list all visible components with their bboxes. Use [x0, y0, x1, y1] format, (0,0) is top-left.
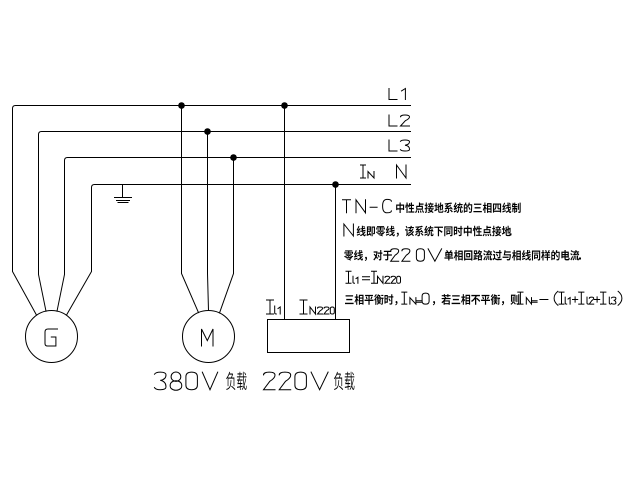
wire L3 phase line	[57, 158, 411, 312]
junction node on L3 at motor tap	[230, 154, 237, 161]
junction node on L1 at motor tap	[178, 102, 185, 109]
generator G circle	[26, 311, 78, 363]
note line 3 chinese tail: 单相回路流过与相线同样的电流.	[444, 250, 453, 260]
label 380V	[155, 372, 218, 390]
label IN220	[300, 300, 334, 314]
wire tap from L2 to motor M	[208, 132, 209, 311]
wire tap from L1 to motor M	[182, 106, 199, 313]
label L3	[389, 140, 410, 151]
note line 2 N glyph	[344, 224, 354, 236]
label IN (neutral current)	[361, 165, 375, 178]
wire tap from L1 down to 220V load	[284, 106, 286, 320]
note line 3 value 220V	[391, 249, 442, 261]
junction node on L1 at load tap	[281, 102, 288, 109]
wire tap from N down to 220V load	[335, 185, 337, 320]
label L1	[389, 89, 405, 100]
label L2	[389, 115, 410, 126]
note line 2 chinese: 线即零线，该系统下同时中性点接地.	[357, 226, 366, 237]
wire N neutral (PEN) line	[67, 185, 411, 316]
220V load box	[268, 320, 350, 353]
ground (earth electrode on PEN line)	[122, 185, 124, 198]
note line 5 chinese: 三相平衡时，	[345, 295, 354, 304]
wire L2 phase line	[39, 132, 411, 312]
note line 4 equation Il1=IN220	[346, 271, 401, 283]
wire tap from L3 to motor M	[220, 158, 234, 314]
note line 1 chinese: 中性点接地系统的三相四线制	[396, 202, 404, 212]
note line 1 TN-C heading	[343, 199, 392, 212]
label M	[202, 329, 214, 346]
note line 5 equation IN=0	[402, 292, 429, 304]
label G	[45, 329, 58, 346]
note line 5 equation IN=-(Il1+Il2+Il3)	[518, 291, 622, 305]
note line 3 chinese head: 零线，对于	[344, 250, 353, 260]
label 220V	[264, 372, 329, 390]
label Il1	[267, 300, 281, 314]
label 380V 负载 (load)	[226, 372, 235, 390]
motor M circle	[183, 311, 235, 363]
wire L1 phase line (bus from generator drop to right end)	[13, 106, 411, 316]
label N	[397, 165, 407, 178]
label 220V 负载 (load)	[334, 372, 343, 390]
junction node on L2 at motor tap	[204, 128, 211, 135]
note line 5 chinese: ，若三相不平衡，则	[433, 301, 435, 305]
junction node on N at load tap	[332, 181, 339, 188]
